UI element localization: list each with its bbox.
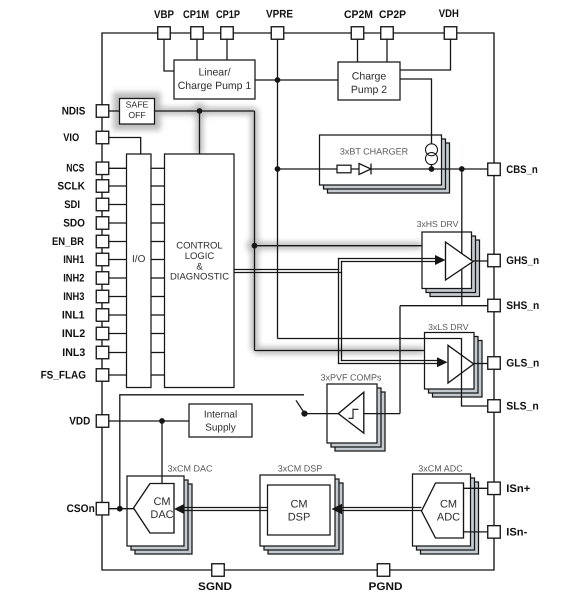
- svg-text:SLS_n: SLS_n: [506, 401, 539, 413]
- wire SDI stub: [109, 204, 127, 206]
- pin SHS_n: [488, 299, 501, 312]
- wire charger row: [278, 168, 488, 170]
- svg-text:3xLS DRV: 3xLS DRV: [428, 322, 469, 332]
- pin VBP: [158, 27, 171, 40]
- svg-text:CM: CM: [290, 499, 307, 511]
- svg-text:SCLK: SCLK: [57, 180, 85, 192]
- wire NDIS to SAFEOFF: [109, 110, 120, 112]
- arrowhead into DSP: [332, 504, 343, 514]
- wire LS enable: [255, 350, 425, 352]
- bus control upper: [234, 269, 339, 271]
- wire INH3 stub: [109, 296, 127, 298]
- pin CP1P: [221, 27, 234, 40]
- bus DSP-DAC lower: [183, 510, 268, 512]
- svg-text:INL3: INL3: [62, 347, 85, 359]
- svg-text:Linear/: Linear/: [198, 67, 230, 79]
- svg-text:&: &: [196, 261, 203, 272]
- wire CP1M down: [196, 39, 198, 60]
- wire comparator out: [364, 413, 400, 415]
- svg-text:VPRE: VPRE: [266, 9, 293, 21]
- pin SGND: [212, 564, 225, 577]
- block 3xCM DSP: [260, 475, 343, 554]
- wire CSOn sense: [120, 395, 304, 509]
- wire LCP1 to CP2: [255, 79, 338, 81]
- svg-text:DIAGNOSTIC: DIAGNOSTIC: [170, 272, 229, 283]
- wire NCS stub: [109, 167, 127, 169]
- svg-text:INH2: INH2: [63, 272, 84, 284]
- arrowhead into DAC: [174, 504, 185, 514]
- wire switch to comparator: [305, 413, 339, 415]
- Charge Pump 2 box: [338, 62, 400, 100]
- svg-text:GLS_n: GLS_n: [506, 358, 539, 370]
- svg-text:INH1: INH1: [63, 254, 84, 266]
- bus vertical right: [341, 261, 343, 361]
- pin CP2P: [381, 27, 394, 40]
- svg-text:INL2: INL2: [62, 328, 85, 340]
- PVF comparator triangle: [338, 392, 364, 433]
- wire I/O-logic tick SCLK: [151, 185, 165, 187]
- wire SHS row: [400, 305, 488, 307]
- wire VDD to DAC: [161, 421, 163, 484]
- wire I/O-logic tick INH1: [151, 259, 165, 261]
- svg-text:LOGIC: LOGIC: [185, 251, 215, 262]
- pin ISn+: [488, 482, 501, 495]
- bus HS lower: [341, 261, 437, 263]
- svg-text:SDI: SDI: [64, 199, 80, 211]
- bus control lower: [234, 272, 342, 274]
- CM DSP inner box: [268, 485, 331, 535]
- hysteresis symbol: [349, 409, 359, 418]
- wire HS enable: [255, 245, 423, 247]
- pin INH1: [96, 253, 109, 266]
- pin VIO: [96, 131, 109, 144]
- svg-text:INH3: INH3: [63, 291, 84, 303]
- svg-text:ISn+: ISn+: [506, 483, 530, 495]
- junction VPRE-charger: [275, 166, 281, 172]
- wire ISn-: [464, 531, 488, 533]
- svg-text:3xCM DAC: 3xCM DAC: [167, 464, 213, 474]
- svg-text:VDH: VDH: [439, 8, 459, 20]
- Linear/Charge Pump 1 box: [174, 60, 255, 99]
- bus DSP-DAC upper: [183, 507, 268, 509]
- wire I/O-logic tick EN_BR: [151, 241, 165, 243]
- pin VPRE: [271, 27, 284, 40]
- svg-text:ADC: ADC: [437, 512, 460, 524]
- svg-text:I/O: I/O: [132, 254, 146, 265]
- bus ADC-DSP lower: [341, 510, 422, 512]
- wire I/O-logic tick INH2: [151, 277, 165, 279]
- CM DAC pentagon: [134, 484, 175, 534]
- arrowhead HS gate: [435, 255, 446, 265]
- Internal Supply box: [189, 404, 252, 437]
- pin CP2M: [351, 27, 364, 40]
- svg-text:CM: CM: [153, 496, 170, 508]
- switch contact: [301, 411, 307, 417]
- svg-text:Charge Pump 1: Charge Pump 1: [178, 80, 252, 92]
- svg-text:Supply: Supply: [205, 423, 236, 434]
- svg-text:3xPVF COMPs: 3xPVF COMPs: [320, 373, 382, 383]
- svg-text:3xCM DSP: 3xCM DSP: [278, 464, 323, 474]
- svg-text:DSP: DSP: [288, 512, 311, 524]
- charger diode: [359, 164, 371, 175]
- wire CP1P down: [226, 39, 228, 60]
- HS driver triangle: [446, 242, 474, 280]
- wire I/O-logic tick SDO: [151, 222, 165, 224]
- svg-text:PGND: PGND: [369, 581, 403, 593]
- wire INH2 stub: [109, 277, 127, 279]
- svg-text:Pump 2: Pump 2: [351, 84, 387, 96]
- junction safeoff: [197, 108, 203, 114]
- svg-text:3xHS DRV: 3xHS DRV: [417, 219, 459, 229]
- pin NDIS: [96, 105, 109, 118]
- CM ADC pentagon: [422, 483, 464, 538]
- SAFE OFF box: [120, 99, 155, 125]
- svg-text:DAC: DAC: [150, 509, 173, 521]
- junction VPRE-CP wire: [275, 77, 281, 83]
- svg-text:NCS: NCS: [66, 163, 84, 175]
- wire SHS to comparator: [399, 306, 401, 414]
- wire I/O-logic tick NCS: [151, 167, 165, 169]
- svg-text:VIO: VIO: [63, 132, 79, 144]
- svg-text:OFF: OFF: [128, 110, 145, 120]
- current source circles: [426, 144, 438, 165]
- svg-text:EN_BR: EN_BR: [52, 236, 84, 248]
- wire SCLK stub: [109, 185, 127, 187]
- I/O box: [127, 154, 152, 388]
- svg-text:CM: CM: [440, 499, 457, 511]
- svg-text:Charge: Charge: [352, 71, 387, 83]
- pin INH3: [96, 290, 109, 303]
- svg-text:VDD: VDD: [69, 415, 90, 427]
- svg-text:SGND: SGND: [198, 581, 232, 593]
- svg-text:3xCM ADC: 3xCM ADC: [418, 464, 463, 474]
- wire INL1 stub: [109, 314, 127, 316]
- block 3xPVF COMPs: [327, 384, 385, 451]
- pin CP1M: [191, 27, 204, 40]
- svg-text:3xBT CHARGER: 3xBT CHARGER: [340, 147, 409, 157]
- wire VDH to CP2: [400, 39, 451, 70]
- svg-text:FS_FLAG: FS_FLAG: [41, 369, 86, 381]
- wire I/O-logic tick FS_FLAG: [151, 374, 165, 376]
- wire VPRE down: [277, 39, 279, 339]
- wire CP2 to charger src: [400, 79, 432, 144]
- pin VDD: [96, 415, 109, 428]
- wire EN_BR stub: [109, 241, 127, 243]
- pin INL2: [96, 327, 109, 340]
- wire INL3 stub: [109, 352, 127, 354]
- svg-text:CONTROL: CONTROL: [176, 241, 222, 252]
- svg-text:SAFE: SAFE: [126, 100, 149, 110]
- charger diode bar: [370, 164, 372, 175]
- svg-text:SHS_n: SHS_n: [506, 300, 539, 312]
- wire VBP down: [164, 39, 174, 71]
- pin ISn-: [488, 526, 501, 539]
- pin GLS_n: [488, 357, 501, 370]
- svg-text:NDIS: NDIS: [62, 105, 86, 117]
- wire INL2 stub: [109, 333, 127, 335]
- glow highlight layer: [117, 96, 424, 351]
- wire safeoff vertical: [254, 111, 256, 351]
- wire safeoff h: [154, 110, 255, 112]
- pin INL1: [96, 309, 109, 322]
- pin INH2: [96, 272, 109, 285]
- svg-text:CP1P: CP1P: [216, 9, 240, 21]
- svg-text:Internal: Internal: [204, 410, 237, 421]
- svg-text:INL1: INL1: [62, 309, 85, 321]
- wire GLS out: [474, 363, 488, 365]
- wire ISn+: [464, 487, 488, 489]
- pin SDO: [96, 217, 109, 230]
- CONTROL LOGIC box: [165, 154, 235, 388]
- wire CSOn: [109, 508, 134, 510]
- switch blade: [296, 400, 305, 413]
- wire FS_FLAG stub: [109, 374, 127, 376]
- svg-text:ISn-: ISn-: [506, 527, 527, 539]
- bus HS upper: [338, 258, 437, 260]
- wire I/O-logic tick INH3: [151, 296, 165, 298]
- svg-text:CSOn: CSOn: [67, 503, 96, 515]
- wire VIO: [109, 138, 141, 155]
- pin SLS_n: [488, 400, 501, 413]
- wire SDO stub: [109, 222, 127, 224]
- pin SCLK: [96, 180, 109, 193]
- chip border: [102, 33, 494, 570]
- pin SDI: [96, 198, 109, 211]
- junction HS enable: [252, 243, 258, 249]
- wire CP2M down: [357, 39, 359, 62]
- pin PGND: [377, 564, 390, 577]
- bus ADC-DSP upper: [341, 507, 422, 509]
- svg-text:SDO: SDO: [63, 217, 85, 229]
- wire GHS out: [473, 260, 488, 262]
- wire safeoff to logic: [199, 111, 201, 154]
- block 3xLS DRV: [425, 333, 483, 398]
- wire src to row: [431, 165, 433, 169]
- wire I/O-logic tick INL1: [151, 314, 165, 316]
- pin CBS_n: [488, 163, 501, 176]
- svg-text:VBP: VBP: [154, 9, 174, 21]
- junction src-charger: [429, 166, 435, 172]
- junction VDD: [159, 418, 165, 424]
- block 3xBT CHARGER: [320, 135, 450, 193]
- svg-text:CBS_n: CBS_n: [506, 164, 538, 176]
- pin EN_BR: [96, 235, 109, 248]
- bus LS upper: [341, 360, 439, 362]
- charger resistor: [337, 165, 351, 173]
- junction CBS branch: [459, 166, 465, 172]
- wire VDD: [109, 420, 190, 422]
- pin GHS_n: [488, 254, 501, 267]
- wire I/O-logic tick INL3: [151, 352, 165, 354]
- block 3xCM ADC: [413, 474, 479, 554]
- wire INH1 stub: [109, 259, 127, 261]
- arrowhead LS gate: [437, 357, 448, 367]
- pin CSOn: [96, 502, 109, 515]
- bus LS lower: [338, 363, 439, 365]
- pin FS_FLAG: [96, 369, 109, 382]
- pin INL3: [96, 346, 109, 359]
- LS driver triangle: [448, 345, 474, 383]
- block 3xHS DRV: [422, 232, 480, 297]
- junction CSOn: [117, 506, 123, 512]
- svg-text:GHS_n: GHS_n: [506, 255, 539, 267]
- wire CP2P down: [386, 39, 388, 62]
- svg-text:CP1M: CP1M: [183, 9, 209, 21]
- wire VPRE to LS: [278, 339, 488, 407]
- pin NCS: [96, 162, 109, 175]
- svg-text:CP2M: CP2M: [344, 9, 373, 21]
- wire I/O-logic tick INL2: [151, 333, 165, 335]
- bus vertical left: [338, 258, 340, 364]
- pin VDH: [444, 27, 457, 40]
- wire I/O-logic tick SDI: [151, 204, 165, 206]
- block 3xCM DAC: [127, 476, 192, 554]
- wire CB bootstrap down: [461, 169, 463, 306]
- svg-text:CP2P: CP2P: [379, 9, 406, 21]
